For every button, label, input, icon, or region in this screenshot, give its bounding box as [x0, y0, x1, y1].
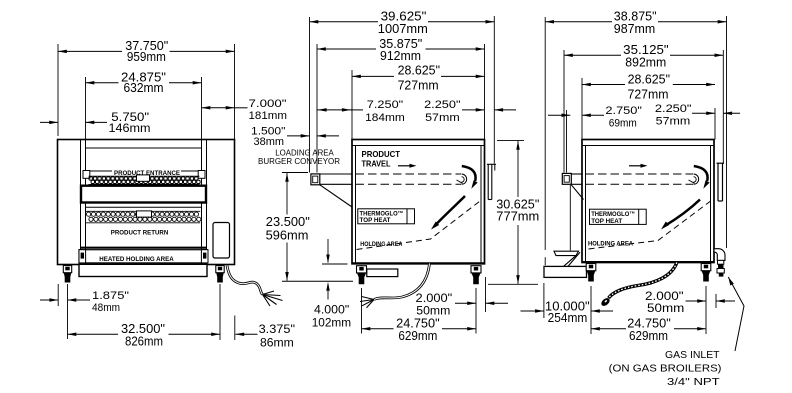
svg-text:23.500": 23.500"	[266, 215, 310, 229]
svg-text:57mm: 57mm	[656, 116, 691, 128]
svg-text:38mm: 38mm	[254, 136, 285, 148]
svg-text:4.000": 4.000"	[314, 303, 349, 317]
svg-text:3.375": 3.375"	[259, 323, 295, 336]
svg-text:BURGER CONVEYOR: BURGER CONVEYOR	[258, 156, 340, 166]
svg-text:TRAVEL: TRAVEL	[362, 158, 391, 168]
svg-text:(ON GAS BROILERS): (ON GAS BROILERS)	[609, 363, 722, 375]
svg-text:912mm: 912mm	[380, 49, 421, 63]
svg-text:TOP HEAT: TOP HEAT	[591, 218, 622, 225]
svg-text:86mm: 86mm	[260, 336, 294, 349]
svg-text:GAS INLET: GAS INLET	[665, 349, 720, 361]
svg-text:629mm: 629mm	[629, 329, 668, 343]
svg-text:50mm: 50mm	[416, 304, 450, 318]
svg-text:PRODUCT RETURN: PRODUCT RETURN	[111, 230, 169, 237]
svg-text:HEATED HOLDING AREA: HEATED HOLDING AREA	[99, 256, 174, 263]
svg-text:HOLDING AREA: HOLDING AREA	[360, 241, 402, 248]
svg-text:3/4" NPT: 3/4" NPT	[667, 376, 720, 388]
svg-text:181mm: 181mm	[249, 110, 288, 122]
svg-text:632mm: 632mm	[124, 81, 164, 95]
svg-text:HOLDING AREA: HOLDING AREA	[588, 240, 633, 247]
svg-text:146mm: 146mm	[109, 121, 151, 135]
svg-text:959mm: 959mm	[127, 50, 166, 64]
svg-text:1007mm: 1007mm	[378, 22, 428, 36]
svg-text:254mm: 254mm	[548, 311, 588, 325]
svg-text:777mm: 777mm	[496, 210, 539, 224]
svg-text:2.250": 2.250"	[655, 103, 692, 115]
svg-text:2.750": 2.750"	[605, 105, 642, 117]
svg-text:727mm: 727mm	[398, 78, 439, 92]
svg-text:7.000": 7.000"	[249, 98, 287, 110]
svg-text:50mm: 50mm	[647, 301, 684, 315]
svg-text:629mm: 629mm	[398, 329, 437, 343]
svg-text:69mm: 69mm	[609, 118, 637, 130]
svg-text:2.250": 2.250"	[424, 99, 461, 111]
svg-text:826mm: 826mm	[125, 335, 163, 349]
svg-text:596mm: 596mm	[266, 229, 309, 243]
svg-text:987mm: 987mm	[614, 22, 655, 36]
svg-text:727mm: 727mm	[628, 87, 669, 101]
svg-text:184mm: 184mm	[365, 112, 405, 124]
svg-text:28.625": 28.625"	[398, 64, 440, 78]
svg-text:28.625": 28.625"	[628, 73, 670, 87]
svg-text:57mm: 57mm	[425, 112, 460, 124]
svg-text:892mm: 892mm	[625, 55, 666, 69]
svg-text:TOP HEAT: TOP HEAT	[360, 217, 391, 224]
svg-text:7.250": 7.250"	[367, 99, 404, 111]
svg-text:1.875": 1.875"	[92, 290, 129, 302]
svg-text:48mm: 48mm	[92, 302, 120, 314]
svg-text:102mm: 102mm	[312, 316, 351, 330]
